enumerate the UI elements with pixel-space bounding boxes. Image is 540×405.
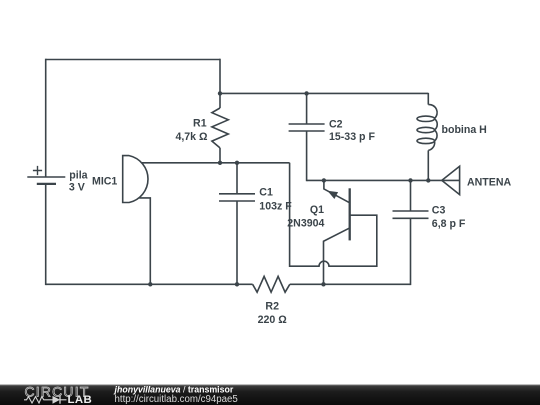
wire C3 top riser (410, 180, 412, 211)
svg-text:MIC1: MIC1 (92, 176, 117, 188)
transistor Q1 emitter wire (324, 180, 350, 202)
battery plus label (33, 166, 42, 175)
svg-text:http://circuitlab.com/c94pae5: http://circuitlab.com/c94pae5 (115, 394, 238, 405)
node C1 bottom junction (235, 282, 239, 286)
footer bar (0, 385, 540, 405)
antenna ANTENA symbol (442, 166, 460, 194)
wire mid rail (mic to base corner) (142, 162, 290, 164)
svg-text:220 Ω: 220 Ω (258, 314, 288, 326)
wire R1 top stub (219, 59, 221, 108)
wire C1 top riser (236, 163, 238, 194)
wire R1 bottom stub (219, 148, 221, 163)
node Q1 collector junction (321, 282, 325, 286)
svg-text:2N3904: 2N3904 (287, 218, 324, 230)
wire bottom rail left (46, 283, 253, 285)
wire upper-mid rail (220, 92, 428, 94)
svg-text:R1: R1 (193, 118, 207, 130)
wire C1 bottom riser (236, 201, 238, 285)
transistor Q1 bar (349, 188, 351, 240)
node mic bottom junction (148, 282, 152, 286)
resistor R2 zigzag (253, 276, 290, 292)
svg-text:ANTENA: ANTENA (467, 176, 511, 188)
wire mid-right rail (307, 179, 442, 181)
svg-text:103z F: 103z F (259, 200, 292, 212)
wire top rail (46, 59, 220, 61)
svg-text:bobina H: bobina H (442, 124, 487, 136)
microphone MIC1 symbol (123, 156, 148, 203)
capacitor C3 plates (393, 211, 429, 218)
svg-text:Q1: Q1 (310, 204, 324, 216)
svg-text:15-33 p F: 15-33 p F (329, 131, 375, 143)
svg-text:C3: C3 (432, 204, 446, 216)
node C3 top junction (408, 178, 412, 182)
wire bottom rail right (290, 283, 411, 285)
svg-text:pila: pila (69, 169, 87, 181)
wire battery to bottom rail (45, 184, 47, 285)
wire C2 bottom riser (306, 131, 308, 181)
wire Q1 base path with hop (290, 163, 377, 266)
capacitor C2 plates (289, 124, 325, 131)
svg-text:6,8 p F: 6,8 p F (432, 218, 466, 230)
wire C2 top riser (306, 93, 308, 124)
svg-text:C1: C1 (259, 186, 273, 198)
svg-text:4,7k Ω: 4,7k Ω (175, 131, 208, 143)
transistor Q1 collector wire (324, 228, 350, 284)
node Q1 emitter junction (322, 178, 326, 182)
CircuitLab logo resistor zigzag (24, 397, 48, 403)
capacitor C1 plates (219, 194, 255, 201)
CircuitLab logo diode symbol (48, 396, 67, 404)
transistor Q1 emitter arrow (327, 191, 338, 199)
battery V1 pila plates (27, 177, 65, 184)
node C2 top junction (304, 91, 308, 95)
svg-text:C2: C2 (329, 119, 343, 131)
resistor R1 zigzag (212, 108, 228, 148)
svg-text:LAB: LAB (68, 394, 93, 405)
node bobina bottom junction (426, 178, 430, 182)
wire left rail top (45, 59, 47, 177)
svg-text:R2: R2 (265, 300, 279, 312)
node R1 bottom junction (218, 161, 222, 165)
wire C3 bottom riser (410, 218, 412, 285)
inductor bobina coil (417, 93, 437, 180)
svg-text:3 V: 3 V (69, 182, 85, 194)
wire mic bottom terminal (139, 198, 150, 285)
node battery-R1 top junction (218, 91, 222, 95)
node C1 top junction (235, 161, 239, 165)
